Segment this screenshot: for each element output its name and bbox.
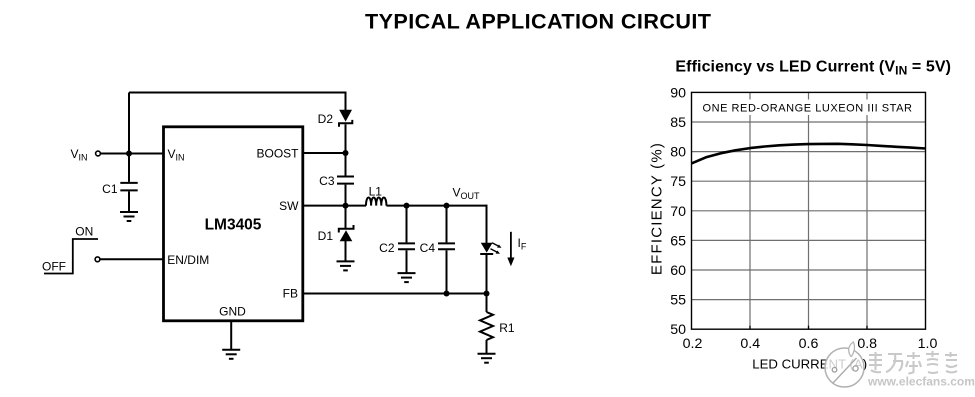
chart gridline 70: [692, 210, 926, 212]
chart gridline 55: [692, 299, 926, 301]
svg-text:85: 85: [670, 115, 686, 131]
watermark figure: [832, 358, 858, 384]
annotation background: [699, 100, 916, 116]
wire SW pin: [302, 205, 366, 207]
svg-text:C3: C3: [319, 174, 335, 188]
wire D1 cathode from SW node: [345, 206, 347, 228]
svg-text:55: 55: [670, 293, 686, 309]
chart gridline x=0.8: [866, 92, 868, 329]
svg-text:VIN: VIN: [168, 147, 185, 163]
wire D1 anode to ground: [345, 241, 347, 262]
svg-text:70: 70: [670, 204, 686, 220]
wire C2 bottom: [406, 250, 408, 273]
svg-text:IF: IF: [518, 236, 527, 252]
wire C4 top: [446, 206, 448, 243]
svg-text:80: 80: [670, 145, 686, 161]
resistor R1: [480, 312, 493, 340]
svg-text:OFF: OFF: [42, 260, 66, 274]
svg-text:0.2: 0.2: [683, 336, 703, 352]
svg-text:0.8: 0.8: [857, 336, 877, 352]
wire D2 cathode to BOOST node: [345, 124, 347, 153]
wire C3 to SW node: [345, 185, 347, 206]
svg-text:1.0: 1.0: [918, 336, 938, 352]
ground C2: [398, 273, 416, 282]
ON/OFF step waveform: [44, 239, 98, 274]
svg-text:0.4: 0.4: [740, 336, 760, 352]
svg-text:60: 60: [670, 263, 686, 279]
svg-text:GND: GND: [219, 305, 246, 319]
node C2 tap: [404, 203, 410, 209]
node BOOST junction: [343, 150, 349, 156]
svg-text:C1: C1: [102, 182, 118, 196]
chart gridline x=0.4: [749, 92, 751, 329]
node FB / LED / R1: [484, 291, 490, 297]
wire GND pin: [230, 320, 232, 350]
chart gridline x=0.6: [808, 92, 810, 329]
svg-text:90: 90: [670, 85, 686, 101]
watermark logo circle: [825, 348, 864, 387]
node VOUT / C4 tap: [444, 203, 450, 209]
diode D1 (Schottky, cathode up): [339, 225, 354, 241]
capacitor C2: [398, 243, 415, 249]
node FB / C4: [444, 291, 450, 297]
wire C2 top: [406, 206, 408, 243]
wire C4 bottom to FB net: [446, 250, 448, 293]
svg-text:L1: L1: [369, 185, 383, 199]
wire top boost feed: [129, 92, 346, 94]
svg-text:65: 65: [670, 233, 686, 249]
node VIN junction: [126, 151, 132, 157]
capacitor C3: [337, 177, 354, 184]
chart tick x=0.4: [749, 326, 751, 330]
chart frame: [692, 92, 926, 329]
chart gridline 85: [692, 121, 926, 123]
current arrow IF: [507, 232, 514, 266]
VIN input terminal: [96, 151, 101, 156]
wire FB net: [302, 293, 487, 295]
svg-text:D1: D1: [318, 229, 334, 243]
svg-text:ON: ON: [75, 224, 93, 238]
EN/DIM input terminal: [95, 257, 100, 262]
efficiency curve: [692, 144, 926, 164]
svg-text:FB: FB: [283, 287, 298, 301]
svg-text:0.6: 0.6: [799, 336, 819, 352]
svg-text:BOOST: BOOST: [256, 147, 299, 161]
chart gridline 80: [692, 151, 926, 153]
chart gridline 65: [692, 239, 926, 241]
wire VIN junction up to boost feed: [128, 93, 130, 154]
wire BOOST pin: [302, 152, 346, 154]
inductor L1: [366, 198, 386, 206]
svg-text:C2: C2: [379, 241, 395, 255]
ground C1: [120, 212, 138, 221]
wire C1 bottom: [128, 191, 130, 212]
svg-text:C4: C4: [420, 241, 436, 255]
capacitor C1 wire top: [128, 154, 130, 182]
svg-text:R1: R1: [499, 321, 515, 335]
diode D2 (Schottky): [339, 110, 352, 127]
wire R1 bottom: [486, 340, 488, 354]
chart tick x=0.6: [808, 326, 810, 330]
ground R1: [478, 354, 496, 363]
wire VOUT corner down to LED: [486, 205, 488, 244]
svg-text:www.elecfans.com: www.elecfans.com: [867, 375, 975, 389]
ground GND pin: [222, 350, 240, 359]
svg-text:SW: SW: [279, 199, 299, 213]
wire EN/DIM to U1: [100, 258, 163, 260]
wire R1 top: [486, 294, 488, 313]
svg-text:VOUT: VOUT: [453, 186, 481, 202]
ground D1: [337, 261, 355, 270]
watermark leaf: [849, 342, 855, 357]
svg-text:ONE RED-ORANGE LUXEON III STAR: ONE RED-ORANGE LUXEON III STAR: [702, 103, 912, 115]
wire L1 to VOUT corner: [386, 205, 486, 207]
wire D2 anode drop: [345, 92, 347, 111]
chart gridline 75: [692, 180, 926, 182]
capacitor C1: [120, 183, 137, 191]
chart gridline 60: [692, 269, 926, 271]
watermark chinese text: [869, 351, 957, 373]
wire LED cathode to FB node: [486, 254, 488, 294]
svg-text:TYPICAL APPLICATION CIRCUIT: TYPICAL APPLICATION CIRCUIT: [365, 9, 711, 34]
svg-text:75: 75: [670, 174, 686, 190]
IC U1 LM3405: [164, 127, 303, 321]
node SW junction: [343, 203, 349, 209]
wire VIN input to U1: [101, 153, 164, 155]
chart tick x=0.8: [866, 326, 868, 330]
wire BOOST node to C3: [345, 153, 347, 176]
svg-text:EN/DIM: EN/DIM: [167, 253, 209, 267]
svg-text:D2: D2: [318, 112, 334, 126]
LED D3: [480, 243, 501, 254]
svg-text:EFFICIENCY (%): EFFICIENCY (%): [649, 142, 666, 275]
svg-text:VIN: VIN: [71, 147, 88, 163]
svg-text:LM3405: LM3405: [205, 217, 262, 234]
capacitor C4: [438, 243, 455, 249]
svg-text:Efficiency vs LED Current (VIN: Efficiency vs LED Current (VIN = 5V): [675, 59, 951, 78]
